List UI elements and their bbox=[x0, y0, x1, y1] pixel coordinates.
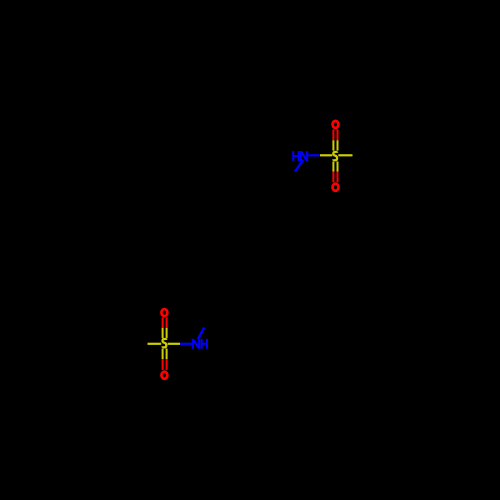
bond S2=O3 lower-left line (yellow half) bbox=[162, 328, 164, 338]
bond S2=O4 lower-right line (red half) bbox=[166, 359, 168, 370]
bond S2=O3 upper-right line (red half) bbox=[166, 318, 168, 328]
bond S1=O2 lower-left line (red half) bbox=[332, 172, 334, 183]
bond S1=O1 lower-right line (yellow half) bbox=[337, 140, 339, 150]
atom S2 (sulfur) bbox=[163, 339, 167, 347]
bond S1=O1 lower-left line (yellow half) bbox=[332, 140, 334, 150]
bond N1-C (blue half, diagonal down-left) bbox=[295, 160, 303, 172]
atom N2 label H of NH bbox=[201, 339, 208, 349]
bond S2=O4 lower-left line (red half) bbox=[162, 359, 164, 370]
bond N1-S1 (yellow half) bbox=[320, 154, 332, 156]
bond S1=O1 upper-right line (red half) bbox=[337, 129, 339, 140]
atom O1 (top oxygen on S1) bbox=[333, 121, 339, 128]
bond S2=O3 lower-right line (yellow half) bbox=[166, 328, 168, 338]
bond N2-C (blue half, diagonal up-right) bbox=[198, 328, 204, 340]
atom N2 label N of NH bbox=[192, 339, 200, 349]
bond S1=O2 upper-left line (yellow half) bbox=[332, 162, 334, 172]
bond S1-CH3 (yellow half, methyl half invisible) bbox=[338, 154, 352, 156]
atom O4 (bottom oxygen on S2) bbox=[161, 372, 167, 379]
atom O3 (top oxygen on S2) bbox=[161, 309, 167, 316]
bond S2=O4 upper-left line (yellow half) bbox=[162, 349, 164, 360]
bond S1=O2 lower-right line (red half) bbox=[337, 172, 339, 183]
bond S1=O2 upper-right line (yellow half) bbox=[337, 162, 339, 172]
atom N1 label N of HN bbox=[300, 151, 308, 161]
atom N1 label H of HN bbox=[292, 151, 299, 161]
bond S2=O3 upper-left line (red half) bbox=[162, 318, 164, 328]
atom O2 (bottom oxygen on S1) bbox=[333, 184, 339, 191]
bond S2-N2 (blue half) bbox=[180, 343, 192, 345]
bond CH3-S2 (yellow half, methyl half invisible) bbox=[148, 343, 162, 345]
bond N1-S1 (blue half) bbox=[308, 154, 320, 156]
bond S2=O4 upper-right line (yellow half) bbox=[166, 349, 168, 360]
atom S1 (sulfur) bbox=[333, 152, 337, 160]
bond S1=O1 upper-left line (red half) bbox=[332, 129, 334, 140]
bond S2-N2 (yellow half) bbox=[168, 343, 180, 345]
